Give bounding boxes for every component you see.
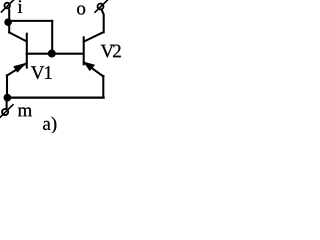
wire: bottom rail <box>7 96 104 98</box>
transistor V1 emitter diagonal <box>7 63 27 75</box>
wire: V1 emitter down <box>6 75 8 97</box>
wire: V1 collector vertical <box>8 22 10 32</box>
terminal i <box>1 0 13 12</box>
label o <box>77 5 85 14</box>
wire: V2 emitter down to bottom rail <box>102 76 104 98</box>
node: base junction dot <box>48 50 56 58</box>
caption a) <box>43 117 56 134</box>
node: input junction dot <box>4 18 12 26</box>
transistor V2 emitter arrow <box>84 62 94 70</box>
transistor V2 base bar <box>83 37 85 64</box>
wire: terminal i down to input node <box>8 10 10 22</box>
label i <box>18 0 23 13</box>
wire: V2 collector up to terminal o <box>102 10 104 32</box>
transistor V1 base bar <box>26 34 28 68</box>
label V1 <box>31 66 52 79</box>
wire: down from top rail to base node <box>51 21 53 54</box>
transistor V1 collector diagonal <box>9 32 26 41</box>
wire: top rail <box>8 20 52 22</box>
transistor V2 collector diagonal <box>84 32 103 41</box>
terminal m <box>0 105 13 118</box>
wire: down to terminal m <box>6 98 8 109</box>
node: emitter rail junction dot <box>4 94 12 102</box>
label m <box>18 107 32 116</box>
transistor V2 emitter diagonal <box>84 62 103 76</box>
transistor V1 emitter arrow <box>14 64 25 72</box>
terminal o <box>95 0 107 12</box>
label V2 <box>101 45 121 58</box>
wire: base rail V1 to V2 <box>27 53 84 55</box>
